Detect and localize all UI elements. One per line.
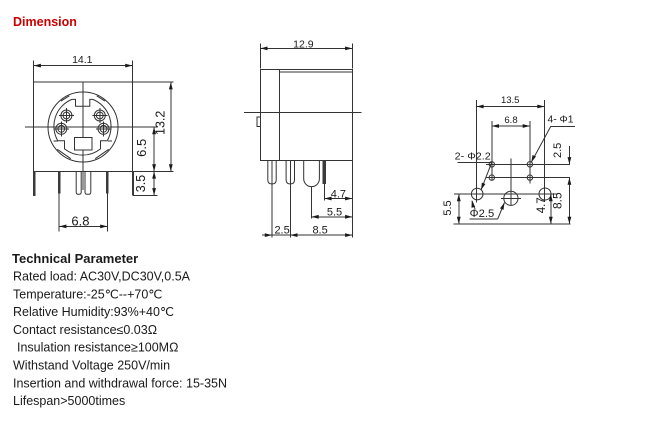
svg-text:4.7: 4.7: [331, 189, 346, 201]
outer shell chord lower-left: [57, 149, 71, 158]
dim 6.8 extension lines: [491, 121, 493, 181]
svg-text:Temperature:-25℃--+70℃: Temperature:-25℃--+70℃: [13, 287, 162, 301]
svg-text:Technical Parameter: Technical Parameter: [12, 251, 138, 266]
pin hole 1 (lower-right): [96, 121, 111, 136]
svg-text:Withstand Voltage 250V/min: Withstand Voltage 250V/min: [13, 359, 170, 373]
small hole top-right: [527, 162, 532, 167]
outer shell circle: [48, 92, 118, 162]
dim 8.5 and 2.5 line: [262, 234, 352, 236]
solder pin left: [58, 172, 61, 194]
svg-text:Dimension: Dimension: [13, 15, 77, 29]
solder pin right: [106, 172, 109, 194]
leader to left mounting hole: [472, 201, 475, 210]
dim 5.5 line (right figure): [458, 194, 460, 224]
pin hole 2 (lower-left): [54, 121, 69, 136]
pin hole 3 (upper-right): [92, 108, 107, 123]
dim 4.7 line: [324, 198, 352, 200]
right side extension lines of front view: [132, 81, 173, 83]
side view centerline: [244, 112, 362, 114]
small hole bottom-right: [527, 175, 532, 180]
svg-text:13.5: 13.5: [501, 95, 520, 106]
dim 6.8 line: [59, 225, 107, 227]
dim 14.1 extension line right: [131, 61, 133, 82]
extension line pin B: [289, 161, 291, 238]
svg-text:3.5: 3.5: [134, 175, 148, 192]
inner shield outline with keyway and bottom steps: [54, 99, 111, 155]
svg-text:2.5: 2.5: [274, 225, 289, 237]
side shield leg (dark): [323, 161, 326, 185]
small hole row line 1: [486, 163, 570, 165]
dim 3.5 line: [153, 171, 155, 195]
dim 5.5 line: [312, 216, 353, 218]
svg-text:2.5: 2.5: [552, 143, 564, 158]
baseline: [454, 223, 571, 225]
center hole: [504, 191, 518, 205]
dim 6.8 extension lines: [58, 193, 60, 231]
dim 12.9 extension lines: [259, 44, 261, 69]
svg-text:Relative Humidity:93%+40℃: Relative Humidity:93%+40℃: [13, 305, 174, 319]
svg-text:Rated load: AC30V,DC30V,0.5A: Rated load: AC30V,DC30V,0.5A: [13, 270, 191, 284]
center shield tab right: [85, 172, 91, 195]
svg-text:8.5: 8.5: [312, 225, 327, 237]
svg-text:6.8: 6.8: [504, 115, 517, 126]
technical parameter text block: [12, 251, 227, 408]
extension line arch center: [311, 187, 313, 219]
dim 13.5 extension lines: [475, 100, 477, 203]
side pin B: [286, 161, 294, 185]
dim 6.8 line: [492, 125, 530, 127]
dim 4.7 line (right figure): [550, 194, 552, 224]
center shield tab left: [76, 172, 81, 195]
svg-text:4.7: 4.7: [536, 197, 548, 213]
svg-text:12.9: 12.9: [293, 38, 314, 50]
small hole bottom-left: [489, 175, 494, 180]
extension line shield leg: [323, 184, 325, 200]
svg-text:6.8: 6.8: [71, 213, 89, 228]
svg-text:8.5: 8.5: [551, 192, 565, 209]
shield seam line: [279, 71, 352, 73]
svg-text:13.2: 13.2: [153, 111, 167, 135]
vertical centerline: [82, 82, 84, 190]
horizontal centerline: [25, 126, 158, 128]
flange divider: [278, 69, 280, 160]
svg-text:5.5: 5.5: [442, 200, 454, 215]
shield step side extension right: [108, 140, 112, 142]
extension line body right: [351, 161, 353, 238]
dim 12.9 line: [260, 47, 352, 49]
outer shell chord upper-left: [61, 96, 69, 101]
outer shell chord upper-right: [97, 96, 105, 101]
small hole top-left: [489, 162, 494, 167]
side view body: [260, 69, 352, 160]
svg-text:Φ2.5: Φ2.5: [470, 208, 495, 220]
svg-text:Insertion and withdrawal force: Insertion and withdrawal force: 15-35N: [13, 376, 227, 390]
center hole vertical line: [510, 158, 512, 205]
dim 6.5 line: [153, 127, 155, 171]
dim 2.5 line (right figure): [568, 146, 570, 164]
svg-text:5.5: 5.5: [327, 207, 342, 219]
pin hole 4 (upper-left): [59, 108, 74, 123]
svg-text:Contact resistance≤0.03Ω: Contact resistance≤0.03Ω: [13, 323, 157, 337]
small hole row line 2: [486, 177, 570, 179]
center hole centerline: [501, 197, 521, 199]
mounting hole right: [539, 188, 551, 200]
mounting hole left: [471, 188, 483, 200]
svg-text:6.5: 6.5: [134, 139, 149, 157]
left shield leg: [33, 172, 35, 196]
svg-text:14.1: 14.1: [72, 54, 93, 66]
front view body square: [34, 82, 133, 171]
extension line pin A: [271, 161, 273, 238]
dim 8.5 line (right figure): [568, 178, 570, 224]
svg-text:4- Φ1: 4- Φ1: [548, 113, 574, 125]
center tab arch: [304, 161, 320, 187]
right shield leg: [132, 172, 134, 196]
dim 14.1 extension line left: [33, 61, 35, 82]
bottom key rectangle: [75, 138, 92, 150]
outer shell chord lower-right: [95, 149, 109, 158]
svg-text:Insulation resistance≥100MΩ: Insulation resistance≥100MΩ: [17, 341, 178, 355]
dim 13.2 line: [170, 82, 172, 171]
svg-text:Lifespan>5000times: Lifespan>5000times: [13, 394, 125, 408]
big hole row line: [454, 193, 558, 195]
dim 14.1 line: [34, 65, 133, 67]
shield step side extension left: [54, 140, 58, 142]
dim 13.5 line: [476, 106, 544, 108]
svg-text:2- Φ2.2: 2- Φ2.2: [455, 151, 491, 163]
latch tab on left edge: [257, 117, 260, 127]
side pin A: [268, 161, 276, 185]
